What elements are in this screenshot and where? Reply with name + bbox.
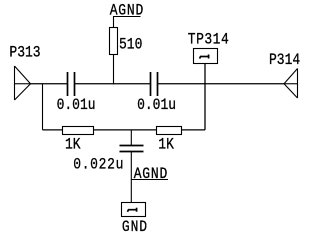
resistor (510) bbox=[110, 28, 118, 55]
svg-text:0.01u: 0.01u bbox=[57, 97, 96, 114]
port P314 bbox=[284, 69, 298, 99]
wire bbox=[113, 55, 115, 85]
test point TP314 bbox=[194, 49, 218, 64]
svg-text:0.01u: 0.01u bbox=[137, 97, 176, 114]
svg-text:510: 510 bbox=[119, 36, 142, 53]
svg-text:P313: P313 bbox=[9, 45, 40, 62]
port P313 bbox=[15, 66, 31, 100]
svg-text:TP314: TP314 bbox=[188, 32, 229, 49]
wire bbox=[31, 83, 68, 85]
wire bbox=[42, 84, 44, 130]
capacitor (0.01u) right bbox=[151, 72, 158, 96]
wire bbox=[130, 152, 132, 203]
svg-text:GND: GND bbox=[122, 219, 148, 235]
svg-text:AGND: AGND bbox=[110, 2, 144, 19]
power port AGND (top) bbox=[113, 17, 141, 28]
wire bbox=[130, 130, 132, 146]
svg-text:1K: 1K bbox=[158, 137, 174, 154]
wire bbox=[204, 64, 206, 85]
wire bbox=[43, 129, 63, 131]
power port AGND (bottom) bbox=[131, 179, 168, 181]
svg-text:AGND: AGND bbox=[134, 166, 168, 183]
ground symbol GND bbox=[122, 203, 146, 217]
wire bbox=[158, 83, 285, 85]
capacitor (0.01u) left bbox=[68, 72, 75, 96]
resistor (1K) left bbox=[63, 127, 94, 135]
resistor (1K) right bbox=[157, 127, 182, 135]
wire bbox=[182, 129, 206, 131]
svg-text:1K: 1K bbox=[65, 137, 81, 154]
svg-text:P314: P314 bbox=[269, 52, 300, 69]
svg-text:0.022u: 0.022u bbox=[73, 157, 124, 174]
wire bbox=[204, 84, 206, 130]
wire bbox=[94, 129, 157, 131]
wire bbox=[75, 83, 151, 85]
capacitor (0.022u) bbox=[120, 146, 144, 152]
